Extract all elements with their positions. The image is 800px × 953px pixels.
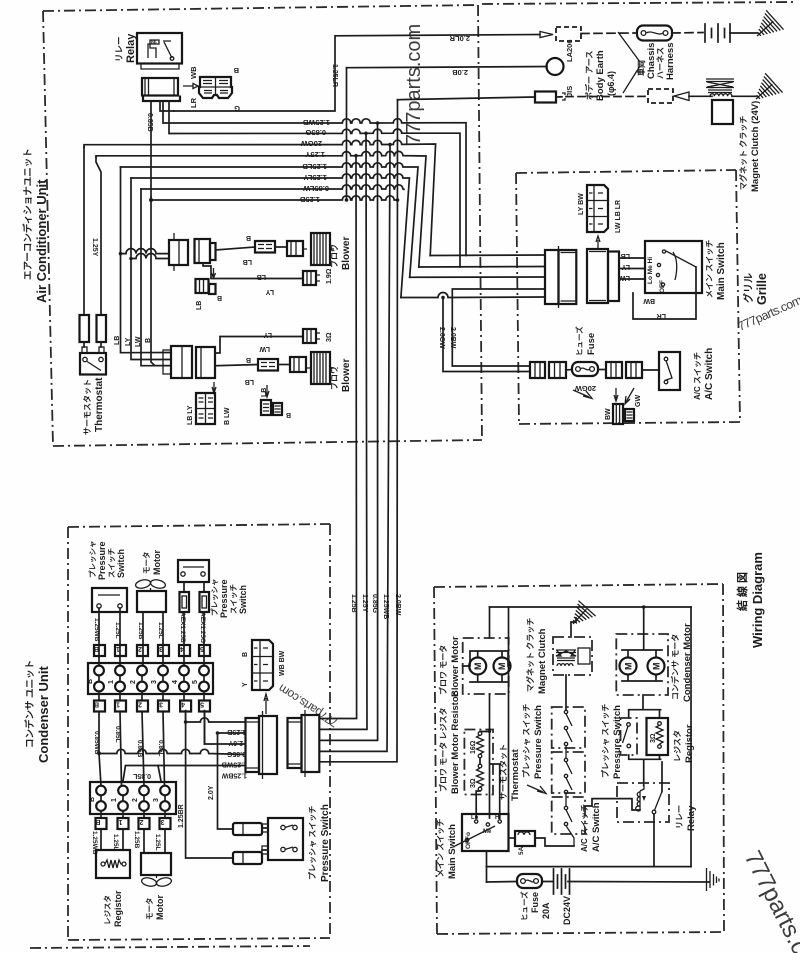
svg-text:2.0GW: 2.0GW	[438, 327, 445, 349]
bundle vertical v2 1.25Y	[319, 156, 356, 719]
grille feed wire E	[401, 293, 545, 298]
svg-text:B: B	[87, 679, 94, 684]
wire 1.25BR	[186, 711, 233, 858]
svg-text:リレー: リレー	[114, 36, 124, 62]
wd bottom rail lower	[487, 881, 710, 884]
label Wiring Diagram	[735, 552, 765, 648]
air conditioner unit frame	[43, 2, 797, 446]
svg-text:スイッチ: スイッチ	[107, 548, 116, 578]
svg-text:リレー: リレー	[675, 805, 684, 829]
svg-text:LR: LR	[189, 97, 198, 108]
wd resistor feed	[489, 694, 491, 729]
arrow left clutch	[674, 92, 689, 101]
svg-text:コンデンサ ユニット: コンデンサ ユニット	[24, 660, 36, 748]
wire C2 down to resistor 1.9	[203, 263, 303, 279]
harness pointer V	[618, 32, 640, 93]
svg-text:エアーコンディショナユニット: エアーコンディショナユニット	[22, 148, 34, 280]
arrow up grille	[596, 236, 600, 250]
AC switch box	[659, 352, 680, 390]
capsule connector upper	[233, 823, 262, 835]
svg-text:LB: LB	[196, 301, 203, 310]
svg-text:2.0BW: 2.0BW	[394, 594, 401, 616]
wd cond parallel rails	[629, 695, 661, 786]
svg-text:プレッシャ スイッチ: プレッシャ スイッチ	[521, 704, 531, 778]
strip1 terminal squares	[94, 645, 210, 656]
wire 2.0B horizontal	[347, 67, 548, 68]
wd chain clutch to switches	[565, 675, 567, 710]
connector 4cell blower2	[196, 393, 215, 424]
svg-text:Fuse: Fuse	[530, 892, 540, 913]
wire main switch loop	[633, 267, 696, 319]
grille connector 2x3	[587, 185, 608, 232]
AEX fuse G	[200, 582, 210, 612]
label Magnet Clutch wd	[525, 618, 548, 694]
svg-text:1: 1	[116, 701, 120, 708]
svg-text:2.0BW: 2.0BW	[449, 327, 456, 349]
condenser unit frame	[68, 524, 330, 940]
wire LW out	[619, 278, 645, 280]
label Motor 2 cond	[144, 895, 165, 920]
blower1 connector C1	[169, 233, 188, 271]
arrow up condenser	[264, 694, 268, 714]
svg-text:BW: BW	[643, 297, 655, 304]
svg-text:0.85L: 0.85L	[132, 772, 151, 779]
svg-text:プレッシャ: プレッシャ	[87, 541, 97, 579]
svg-text:0.85G: 0.85G	[305, 128, 326, 137]
svg-text:3: 3	[153, 798, 160, 802]
svg-text:1.25B: 1.25B	[227, 728, 246, 735]
svg-text:Magnet Clutch: Magnet Clutch	[537, 628, 548, 694]
svg-text:1.25WB: 1.25WB	[382, 594, 389, 619]
wd relay box	[617, 783, 669, 822]
svg-text:1: 1	[108, 680, 115, 684]
svg-text:A/C スイッチ: A/C スイッチ	[693, 352, 702, 400]
arrow 2.0LR end	[540, 32, 553, 38]
JIS plug	[535, 92, 565, 103]
svg-text:Grille: Grille	[755, 273, 769, 305]
svg-text:4: 4	[172, 680, 179, 684]
label AC Switch grille	[693, 348, 715, 400]
small pair connector blower2	[261, 400, 282, 415]
svg-text:20A: 20A	[541, 902, 551, 919]
svg-text:M: M	[652, 663, 662, 671]
svg-text:Relay: Relay	[125, 33, 137, 63]
connector WB/B/LR/G	[199, 77, 232, 98]
wire JIS third	[398, 97, 536, 100]
label Motor 1	[141, 550, 162, 575]
wire plug to motor1	[275, 246, 287, 248]
svg-text:2: 2	[138, 645, 142, 652]
svg-text:M: M	[497, 663, 507, 671]
svg-text:M: M	[624, 663, 634, 671]
fuse 20GW	[572, 362, 598, 376]
fuse row connector 3	[606, 362, 622, 378]
svg-text:4: 4	[180, 645, 184, 652]
svg-text:Motor: Motor	[155, 895, 165, 920]
svg-text:Thermostat: Thermostat	[510, 748, 521, 801]
wd right rail	[690, 607, 692, 867]
wd AC switch box bottom	[552, 790, 585, 846]
svg-text:5: 5	[200, 645, 204, 652]
label Blower Motor wd	[438, 636, 461, 697]
magnet clutch coil top	[706, 79, 734, 96]
svg-text:Pressure: Pressure	[219, 579, 229, 618]
label Condenser Motor	[670, 623, 693, 702]
svg-text:1.25B: 1.25B	[299, 195, 320, 204]
svg-text:サーモスタット: サーモスタット	[498, 744, 508, 800]
wire 2.0Y branch	[218, 732, 246, 734]
LB plug blower2	[258, 359, 278, 371]
wd magnet clutch box	[553, 637, 592, 675]
svg-text:B: B	[242, 652, 249, 657]
svg-text:Pressure: Pressure	[97, 541, 107, 580]
wire bundle w4 1.25Y	[96, 151, 426, 267]
svg-text:Blower Motor: Blower Motor	[450, 636, 461, 697]
label Registor wd	[672, 724, 695, 763]
main switch box	[645, 241, 702, 293]
grille feed wire C	[410, 276, 545, 278]
blower motor2	[290, 352, 338, 384]
svg-text:0.85WB: 0.85WB	[93, 731, 100, 755]
wd resistor wiring	[476, 607, 508, 818]
arrow to connector	[183, 83, 198, 88]
wire branch blower1 b	[131, 254, 169, 259]
strip2 numbered squares	[95, 811, 170, 829]
svg-text:ハーネス: ハーネス	[655, 47, 665, 79]
svg-text:LB: LB	[621, 252, 630, 259]
svg-text:Blower: Blower	[341, 359, 352, 392]
svg-text:1.25WB: 1.25WB	[93, 618, 100, 642]
svg-text:モータ: モータ	[141, 552, 151, 575]
terminal strip 1	[87, 663, 213, 694]
svg-text:3: 3	[151, 680, 158, 684]
grille feed wire A	[430, 254, 545, 257]
blower1 connector C2	[195, 239, 216, 263]
thermostat fuses	[80, 147, 107, 347]
svg-text:メイン スイッチ: メイン スイッチ	[436, 819, 445, 877]
svg-text:AEX1.25G: AEX1.25G	[199, 612, 206, 643]
svg-text:レジスタ: レジスタ	[102, 895, 112, 925]
wd condenser motor branch	[643, 607, 645, 634]
wire bundle w3 20GW	[84, 140, 436, 255]
svg-text:Pressure Switch: Pressure Switch	[320, 804, 331, 882]
label Fuse grille	[574, 326, 597, 356]
svg-text:1.25LB: 1.25LB	[302, 162, 327, 171]
svg-text:Blower: Blower	[341, 237, 352, 270]
svg-text:1.25B: 1.25B	[137, 622, 144, 640]
svg-text:2.0Y: 2.0Y	[228, 739, 243, 746]
svg-text:0.85G: 0.85G	[371, 594, 378, 614]
svg-text:LY: LY	[125, 337, 132, 346]
wd thermostat label	[498, 744, 546, 801]
svg-text:ボデー アース: ボデー アース	[584, 51, 594, 100]
svg-text:LW: LW	[135, 336, 142, 347]
svg-text:マグネット クラッチ: マグネット クラッチ	[525, 618, 535, 692]
svg-text:5: 5	[192, 680, 199, 684]
label Main Switch	[705, 240, 727, 300]
svg-text:Wiring Diagram: Wiring Diagram	[750, 552, 765, 648]
svg-text:3Ω: 3Ω	[650, 733, 657, 743]
label Main Switch wd	[436, 819, 458, 879]
wire relay to 2.0LR	[160, 101, 174, 111]
label Pressure Switch wd left	[521, 704, 544, 779]
label Air Conditioner Unit	[22, 148, 49, 303]
blower2 connector C5	[196, 347, 215, 378]
wire to motor2	[278, 364, 290, 366]
svg-text:1.25BR: 1.25BR	[178, 804, 185, 828]
svg-text:1.25LR: 1.25LR	[331, 64, 338, 87]
svg-text:M: M	[473, 663, 483, 671]
wd clutch ground wire	[571, 618, 576, 637]
svg-text:結線図: 結線図	[735, 569, 749, 611]
svg-text:モータ: モータ	[144, 898, 154, 921]
svg-text:Thermostat: Thermostat	[94, 377, 105, 432]
wd bottom rail upper	[487, 866, 692, 868]
svg-text:3: 3	[159, 645, 163, 652]
svg-text:4: 4	[181, 701, 185, 708]
svg-text:777parts.com: 777parts.com	[403, 24, 425, 145]
relay connector	[142, 78, 180, 101]
wire LY out	[619, 268, 645, 270]
svg-text:5A: 5A	[518, 846, 525, 855]
wd 20A fuse	[517, 874, 542, 888]
svg-text:LB: LB	[257, 273, 266, 280]
label Pressure Switch 1	[87, 541, 126, 581]
arrow down small pair	[265, 385, 269, 397]
svg-text:ブロワ: ブロワ	[329, 366, 339, 390]
svg-text:DC24V: DC24V	[562, 896, 572, 925]
connector circle 2.0B	[547, 58, 564, 75]
wd condenser motor box	[616, 634, 668, 695]
svg-text:LY: LY	[621, 263, 630, 270]
svg-text:B: B	[89, 797, 96, 802]
capsule connector lower	[233, 852, 262, 864]
wd AC switch chain box	[552, 746, 585, 793]
svg-text:Blower Motor Resistor: Blower Motor Resistor	[450, 692, 461, 794]
svg-text:1.25LY: 1.25LY	[304, 173, 328, 182]
svg-text:3: 3	[159, 701, 163, 708]
wire cond L3 0.85G	[97, 751, 101, 755]
condenser left connector	[246, 711, 278, 779]
dashed connector box top	[556, 27, 581, 41]
dash wire to battery	[672, 32, 703, 35]
svg-text:1.25L: 1.25L	[154, 834, 161, 851]
svg-text:Fuse: Fuse	[586, 333, 597, 355]
fuse row connector 1	[530, 362, 545, 378]
grille main connector left	[545, 246, 576, 308]
svg-text:LB: LB	[243, 258, 252, 265]
svg-text:ヒューズ: ヒューズ	[574, 326, 584, 356]
wiring diagram box frame	[434, 584, 724, 934]
svg-text:3Ω: 3Ω	[470, 778, 477, 788]
wd 5A fuse	[509, 831, 575, 855]
svg-text:3Ω: 3Ω	[326, 332, 333, 342]
wd top rail	[490, 606, 692, 608]
svg-text:LB: LB	[261, 388, 268, 397]
label Relay wd	[675, 805, 697, 831]
grille feed wire D fuse loop	[452, 289, 545, 366]
arrow diag right	[625, 388, 634, 404]
wire LW vertical	[141, 189, 171, 366]
svg-text:WB: WB	[189, 66, 198, 79]
resistor plug 3ohm	[303, 329, 320, 343]
svg-text:1.25Y: 1.25Y	[91, 238, 98, 257]
svg-text:ブロワ モータ レジスタ: ブロワ モータ レジスタ	[438, 708, 448, 792]
svg-text:1.25B: 1.25B	[350, 594, 357, 613]
svg-text:スイッチ: スイッチ	[229, 584, 238, 614]
svg-text:ヒューズ: ヒューズ	[519, 891, 529, 921]
svg-text:B: B	[233, 66, 239, 75]
svg-text:LA206: LA206	[565, 39, 574, 62]
svg-text:JIS: JIS	[565, 86, 574, 97]
wire C2 to B plug	[216, 247, 256, 250]
wd register box	[647, 718, 669, 755]
svg-text:2: 2	[130, 680, 137, 684]
svg-text:レジスタ: レジスタ	[672, 730, 682, 762]
condenser right connector	[288, 710, 320, 777]
wire bundle w7 0.85LW	[141, 185, 404, 190]
svg-text:ブロワ モータ: ブロワ モータ	[438, 645, 448, 695]
wire fuse to c3	[598, 369, 606, 371]
svg-text:1: 1	[111, 798, 118, 802]
dashed connector box right	[648, 89, 673, 103]
svg-text:Switch: Switch	[116, 549, 126, 578]
svg-text:B LW: B LW	[224, 407, 231, 425]
svg-text:WB BW: WB BW	[279, 650, 286, 676]
svg-text:車両: 車両	[636, 60, 646, 76]
svg-text:LY: LY	[263, 331, 272, 338]
blower motor1	[287, 233, 338, 265]
svg-text:0.85G: 0.85G	[226, 750, 246, 757]
svg-text:LY BW: LY BW	[578, 193, 585, 215]
label Condenser Unit	[24, 660, 51, 763]
labels 1.25 wires strip2	[91, 831, 161, 855]
wire C5 mid to LB plug	[215, 365, 258, 366]
svg-text:Switch: Switch	[238, 585, 248, 614]
svg-text:Lo Me Hi: Lo Me Hi	[647, 257, 654, 284]
wire to AC switch	[642, 369, 659, 371]
relay R	[137, 33, 182, 69]
wd cond pressure switch box	[621, 718, 638, 755]
battery top right	[705, 24, 757, 42]
svg-text:2.0LR: 2.0LR	[449, 34, 470, 43]
svg-text:B: B	[95, 818, 100, 825]
svg-text:サーモスタット: サーモスタット	[82, 379, 92, 435]
svg-text:B: B	[246, 356, 251, 363]
label Blower 2	[329, 359, 352, 392]
wire bundle w5 1.25LB	[121, 163, 419, 277]
svg-text:Main Switch: Main Switch	[716, 242, 727, 300]
svg-text:1.25WB: 1.25WB	[222, 761, 247, 768]
ground clutch top	[747, 73, 782, 108]
svg-text:Condenser Unit: Condenser Unit	[36, 666, 51, 763]
svg-text:B: B	[145, 338, 152, 343]
svg-text:1.25Y: 1.25Y	[305, 150, 325, 159]
svg-text:B: B	[217, 294, 222, 301]
wire branch blower1 a	[121, 249, 170, 254]
labels 0.85 wires	[93, 726, 164, 758]
ground wd bottom	[707, 868, 720, 891]
svg-text:2.0Y: 2.0Y	[208, 785, 215, 800]
svg-text:1.25BW: 1.25BW	[221, 772, 247, 779]
wire C5 top to resistor 3ohm	[215, 337, 303, 354]
svg-text:プレッシャ: プレッシャ	[209, 579, 219, 617]
fuse loop wire B	[443, 298, 530, 372]
svg-text:LB: LB	[245, 378, 254, 385]
svg-text:1.25L: 1.25L	[112, 834, 119, 851]
label Blower 1	[329, 237, 352, 270]
svg-text:ブロワ: ブロワ	[329, 244, 339, 268]
wire bundle w1 1.25WB	[163, 101, 466, 256]
svg-text:GW: GW	[635, 395, 642, 407]
svg-text:86: 86	[151, 40, 157, 46]
svg-text:Hi: Hi	[495, 815, 501, 821]
grille box frame	[516, 170, 740, 424]
cond pressure switch 2	[178, 560, 209, 582]
thermostat TH	[80, 347, 106, 375]
label Register cond	[102, 890, 123, 927]
grille main connector right	[587, 249, 619, 303]
wire 2.0B riser	[346, 68, 348, 200]
svg-text:A/C Switch: A/C Switch	[704, 348, 715, 400]
svg-text:Relay: Relay	[686, 805, 697, 831]
wire coil to ground	[732, 95, 756, 97]
wire bundle w8 1.25B	[151, 196, 398, 200]
label Pressure Switch 3	[307, 804, 331, 882]
blower2 connector C4	[163, 346, 192, 378]
wires to strip1 squares	[99, 608, 204, 666]
svg-text:LW LB LR: LW LB LR	[615, 200, 622, 233]
wire relay pin 0.85B down	[150, 101, 152, 197]
label Fuse 20A	[519, 891, 551, 921]
bundle vertical v5 2.0BW	[319, 145, 390, 752]
wd main switch box	[455, 814, 509, 851]
arrow down C2	[212, 268, 216, 278]
svg-text:Main Switch: Main Switch	[447, 824, 458, 879]
label Blower Motor Resistor	[438, 692, 461, 794]
label Chassis Harness	[636, 43, 676, 81]
svg-text:B: B	[286, 411, 291, 418]
svg-text:1.25B: 1.25B	[133, 831, 140, 849]
svg-text:Harness: Harness	[665, 43, 676, 81]
wire bundle w6 1.25LY	[131, 174, 409, 298]
svg-text:メイン スイッチ: メイン スイッチ	[705, 240, 714, 298]
svg-text:AEX1.25B: AEX1.25B	[179, 612, 186, 643]
svg-text:プレッシャ スイッチ: プレッシャ スイッチ	[600, 704, 610, 778]
svg-text:1.9Ω: 1.9Ω	[326, 268, 333, 284]
fuse row connector 2	[549, 362, 566, 378]
svg-text:(φ6.4): (φ6.4)	[606, 71, 616, 96]
label Pressure Switch wd right	[600, 704, 623, 779]
svg-text:コンデンサ モータ: コンデンサ モータ	[670, 634, 680, 700]
label AC Switch wd	[580, 802, 602, 852]
label Pressure Switch 2	[209, 579, 248, 619]
svg-text:2: 2	[140, 818, 144, 825]
BW GW mini connector	[613, 404, 634, 424]
svg-text:B: B	[246, 234, 251, 241]
svg-text:BW: BW	[605, 408, 612, 420]
svg-text:5: 5	[200, 701, 204, 708]
svg-text:LR: LR	[657, 312, 666, 319]
svg-text:Registor: Registor	[113, 890, 123, 927]
svg-text:B: B	[94, 701, 99, 708]
wd blower branch	[489, 607, 491, 638]
svg-text:0.85L: 0.85L	[157, 740, 164, 757]
svg-text:2: 2	[132, 798, 139, 802]
svg-text:マグネット クラッチ: マグネット クラッチ	[738, 116, 748, 190]
svg-text:20GW: 20GW	[300, 139, 322, 148]
label Body Earth	[584, 50, 616, 101]
